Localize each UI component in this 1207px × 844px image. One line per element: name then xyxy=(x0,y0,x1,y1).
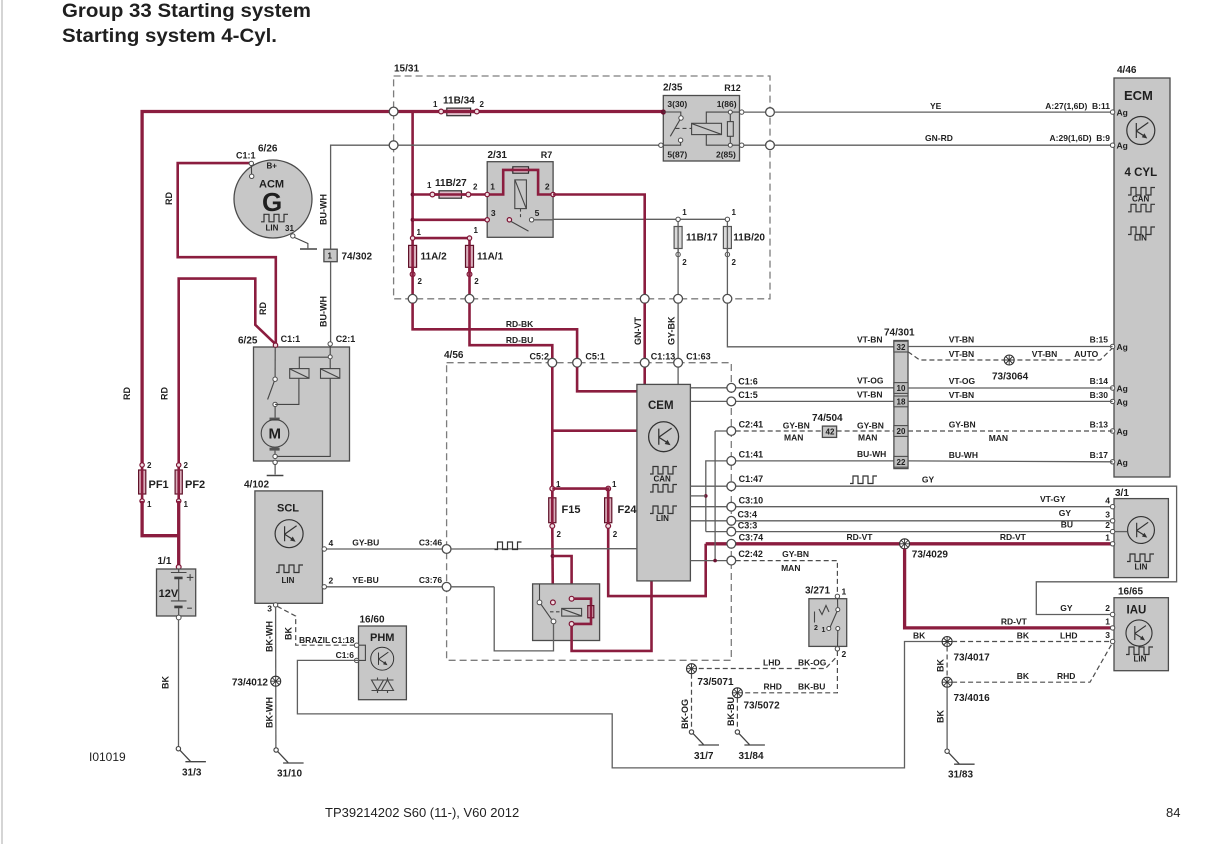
svg-text:Ag: Ag xyxy=(1117,141,1128,151)
svg-text:VT-BN: VT-BN xyxy=(949,349,975,359)
svg-text:Ag: Ag xyxy=(1117,108,1128,118)
svg-text:11B/17: 11B/17 xyxy=(686,233,718,244)
svg-text:C3:46: C3:46 xyxy=(419,538,442,548)
svg-text:3: 3 xyxy=(491,208,496,218)
wire: CEM bottom red to relay coil return xyxy=(572,581,652,651)
relay (starter control) in 4/56 xyxy=(533,584,600,641)
svg-text:2: 2 xyxy=(329,576,334,586)
svg-text:1: 1 xyxy=(490,182,495,192)
svg-text:2: 2 xyxy=(545,182,550,192)
svg-text:3/1: 3/1 xyxy=(1115,488,1129,499)
svg-text:2: 2 xyxy=(480,100,485,109)
svg-text:C1:5: C1:5 xyxy=(738,390,758,400)
svg-text:1: 1 xyxy=(822,627,826,634)
wire: BK RHD dashed diagonal to IAU pin 3 xyxy=(952,645,1111,683)
svg-text:GY-BN: GY-BN xyxy=(783,421,810,431)
wire: grey 5(87) row from node to relay 2/35 xyxy=(394,144,664,146)
svg-text:BK-WH: BK-WH xyxy=(265,621,275,652)
wire: GY-BN MAN dashed row 20 to ECM B:13 xyxy=(908,430,1113,432)
svg-text:F15: F15 xyxy=(562,504,581,516)
node C3:10 xyxy=(727,502,736,511)
svg-text:LHD: LHD xyxy=(763,657,780,667)
wire: C1:47 GY row to IAU pin 2 xyxy=(690,486,1176,614)
svg-text:2/35: 2/35 xyxy=(663,83,683,94)
svg-text:15/31: 15/31 xyxy=(394,64,419,75)
svg-text:SCL: SCL xyxy=(277,503,299,515)
wire: battery to ground 31/3 (BK) xyxy=(178,620,180,747)
generator 6/26 ACM xyxy=(234,144,312,239)
svg-text:RHD: RHD xyxy=(1057,671,1075,681)
wire: GY-BU from SCL pin4 to C3:46 and CEM xyxy=(327,548,447,550)
svg-text:C1:41: C1:41 xyxy=(739,450,764,460)
svg-text:Ag: Ag xyxy=(1117,342,1128,352)
svg-text:GN-VT: GN-VT xyxy=(633,317,643,346)
svg-text:RD-VT: RD-VT xyxy=(1001,617,1028,627)
ECM pin B:11 xyxy=(1110,110,1114,114)
node C3:4 xyxy=(727,516,736,525)
node 15/31 left edge lower (BU-WH row) xyxy=(389,141,398,150)
svg-text:B:13: B:13 xyxy=(1090,420,1109,430)
fuse 11B/34 xyxy=(433,95,485,115)
PHM pin C1:6 xyxy=(354,658,358,662)
harness box 4/56 (dashed) xyxy=(444,350,731,660)
wire: GY-BK grey drop to CEM xyxy=(677,303,679,384)
svg-text:G: G xyxy=(262,187,282,217)
svg-text:2: 2 xyxy=(557,530,562,539)
svg-text:Ag: Ag xyxy=(1117,427,1128,437)
svg-text:BK-BU: BK-BU xyxy=(726,697,736,726)
node C1:13 xyxy=(640,358,649,367)
junction dot feed/pin3 row xyxy=(411,218,415,222)
svg-text:31/84: 31/84 xyxy=(739,751,764,762)
svg-text:VT-BN: VT-BN xyxy=(949,390,975,400)
svg-text:2: 2 xyxy=(842,649,847,659)
ECM pin B:30 xyxy=(1110,399,1114,403)
node C1:47 xyxy=(727,482,736,491)
relay 2/31 R7 xyxy=(485,150,555,237)
wire: RD-BK 11A/2 to C5:1 xyxy=(413,303,577,358)
svg-text:BU-WH: BU-WH xyxy=(949,450,978,460)
svg-text:3: 3 xyxy=(1105,630,1110,640)
node 15/31 right edge lower xyxy=(766,141,775,150)
node C2:42 xyxy=(727,556,736,565)
svg-text:B:14: B:14 xyxy=(1090,376,1109,386)
svg-text:C1:13: C1:13 xyxy=(651,352,676,362)
svg-text:31/3: 31/3 xyxy=(182,768,202,779)
node C5:2 xyxy=(548,358,557,367)
fuse F24 xyxy=(605,480,638,539)
node C1:6 xyxy=(727,383,736,392)
ground 31/83 xyxy=(945,749,975,781)
svg-text:I01019: I01019 xyxy=(89,750,126,764)
wire: dashed GY-BN MAN from C2:42 to 3/271 xyxy=(736,561,838,594)
svg-text:4: 4 xyxy=(1105,495,1110,505)
svg-text:73/4017: 73/4017 xyxy=(954,653,991,664)
svg-text:11B/20: 11B/20 xyxy=(733,233,765,244)
SCL pin 2 xyxy=(322,585,326,589)
svg-text:VT-BN: VT-BN xyxy=(857,335,883,345)
svg-text:11B/27: 11B/27 xyxy=(435,178,467,189)
svg-text:RD-VT: RD-VT xyxy=(847,532,874,542)
svg-text:GY-BN: GY-BN xyxy=(782,549,809,559)
svg-text:Group 33 Starting system: Group 33 Starting system xyxy=(62,1,311,22)
wire: GN-RD to ECM B:9 xyxy=(774,144,1112,146)
starter motor 6/25 xyxy=(238,334,355,461)
svg-text:4/46: 4/46 xyxy=(1117,65,1137,76)
splice 73/4012 xyxy=(271,676,281,686)
svg-text:VT-GY: VT-GY xyxy=(1040,494,1066,504)
svg-text:31/7: 31/7 xyxy=(694,751,714,762)
wire: F15 down to relay switch contact xyxy=(551,528,554,602)
wire: BK dashed between 73/4017 and 73/4016 xyxy=(946,647,948,678)
svg-text:2(85): 2(85) xyxy=(716,150,736,160)
svg-text:2: 2 xyxy=(418,277,423,286)
svg-text:VT-OG: VT-OG xyxy=(857,376,884,386)
svg-text:C2:41: C2:41 xyxy=(739,420,764,430)
svg-text:BK-BU: BK-BU xyxy=(798,682,825,692)
splice 73/4029 xyxy=(900,539,910,549)
svg-text:MAN: MAN xyxy=(858,433,877,443)
splice 73/3064 xyxy=(1004,355,1014,365)
svg-text:73/5072: 73/5072 xyxy=(744,701,781,712)
wire: BU-WH generator LIN harness (to node and 6/25 C2:1) xyxy=(331,145,394,343)
module 16/65 IAU xyxy=(1114,587,1168,671)
svg-text:RD: RD xyxy=(160,387,170,400)
svg-text:73/3064: 73/3064 xyxy=(992,372,1029,383)
node C3:46 xyxy=(442,545,451,554)
module 3/1 xyxy=(1114,488,1168,578)
fuse 11A/1 xyxy=(466,226,504,299)
svg-text:VT-BN: VT-BN xyxy=(949,335,975,345)
svg-text:BK: BK xyxy=(161,676,171,689)
wire: RD-BU 11A/1 to C5:2 xyxy=(470,303,553,358)
svg-text:C3:76: C3:76 xyxy=(419,575,442,585)
wire: F15 branch to relay coil xyxy=(553,556,572,597)
svg-text:CAN: CAN xyxy=(654,475,672,484)
svg-text:C3:10: C3:10 xyxy=(739,495,764,505)
node 15/31 bottom edge x=678.1 (GY-BK) xyxy=(674,294,683,303)
ground 31/84 xyxy=(735,730,765,762)
svg-text:RD: RD xyxy=(258,302,268,315)
svg-text:B+: B+ xyxy=(267,162,278,171)
svg-text:31/10: 31/10 xyxy=(277,769,302,780)
svg-text:4: 4 xyxy=(329,538,334,548)
svg-text:16/60: 16/60 xyxy=(360,615,385,626)
svg-text:B:30: B:30 xyxy=(1090,390,1109,400)
wire: C3:3 row to 3/1 pin 2 xyxy=(706,531,1113,533)
svg-text:C2:42: C2:42 xyxy=(738,549,763,559)
ECM pin B:9 xyxy=(1110,143,1114,147)
wire: VT-BN AUTO dashed alternate to B:15 xyxy=(908,349,1112,361)
svg-text:BK: BK xyxy=(913,631,926,641)
wire: YE row relay to 15/31 edge xyxy=(744,111,770,113)
svg-text:2: 2 xyxy=(1105,520,1110,530)
SCL pin 4 xyxy=(322,547,326,551)
svg-text:F24: F24 xyxy=(618,504,638,516)
ground 31/7 xyxy=(689,730,719,762)
svg-text:B:15: B:15 xyxy=(1090,335,1109,345)
junction dot F15 branch xyxy=(551,554,555,558)
svg-text:R7: R7 xyxy=(541,150,553,160)
ECM 4/46 xyxy=(1114,65,1170,477)
wire: battery B+ feed PF1 riser (RD) xyxy=(142,112,663,466)
svg-text:BU: BU xyxy=(1061,519,1073,529)
svg-text:RD-BK: RD-BK xyxy=(506,319,534,329)
svg-text:2: 2 xyxy=(682,258,687,267)
svg-text:BK: BK xyxy=(936,710,946,723)
svg-text:11A/1: 11A/1 xyxy=(477,252,504,263)
wire: link F15/F24 tops xyxy=(552,489,608,498)
svg-text:RD-VT: RD-VT xyxy=(1000,532,1027,542)
svg-text:MAN: MAN xyxy=(781,563,800,573)
svg-text:C3:4: C3:4 xyxy=(738,510,758,520)
splice 73/4017 xyxy=(942,637,952,647)
svg-text:Ag: Ag xyxy=(1117,384,1128,394)
module 16/60 PHM xyxy=(359,615,407,700)
wire: C3:4 row to 3/1 pin 3 xyxy=(690,520,1112,522)
svg-text:BK-OG: BK-OG xyxy=(680,699,690,729)
svg-text:1: 1 xyxy=(842,587,847,597)
svg-text:R12: R12 xyxy=(724,83,741,93)
wire: 2/31 pin5 grey row to 11B/17 and 11B/20 xyxy=(553,218,727,220)
svg-text:2: 2 xyxy=(732,258,737,267)
svg-text:31/83: 31/83 xyxy=(948,770,973,781)
wire: BK from PHM C1:6 to splice 73/4017 xyxy=(297,642,942,768)
wire: VT-BN row 18 to ECM B:30 xyxy=(908,400,1113,402)
connector 74/302 pin 1 xyxy=(324,249,373,262)
switch 3/271 (gear selector) xyxy=(805,586,847,660)
wire: link 11A/2 to 11A/1 tops xyxy=(413,238,470,245)
svg-text:11A/2: 11A/2 xyxy=(421,252,448,263)
svg-text:C1:1: C1:1 xyxy=(281,334,301,344)
PHM pin C1:18 xyxy=(354,643,358,647)
wire: YE-BU from SCL pin2 to C3:76 and relay xyxy=(327,586,447,588)
wire: dashed GY-BN MAN to 74/504 and 74/301 pin 20 xyxy=(736,430,823,432)
svg-text:73/4029: 73/4029 xyxy=(912,550,949,561)
svg-text:6/25: 6/25 xyxy=(238,336,258,347)
svg-text:73/4016: 73/4016 xyxy=(954,693,991,704)
svg-text:B:17: B:17 xyxy=(1090,450,1109,460)
IAU pin 2 xyxy=(1110,612,1114,616)
svg-text:20: 20 xyxy=(897,427,906,436)
svg-text:C1:1: C1:1 xyxy=(236,151,256,161)
3/1 pin 1 xyxy=(1110,542,1114,546)
fuse F15 xyxy=(549,480,581,539)
svg-text:LIN: LIN xyxy=(1135,563,1148,572)
junction dot feed/11A link xyxy=(411,236,415,240)
svg-text:5(87): 5(87) xyxy=(667,150,687,160)
wire: 2/31 pin2 output to GN-VT drop xyxy=(553,195,645,299)
wire: VT-BN from 11B/20 to 74/301 pin32 xyxy=(727,303,894,347)
svg-text:C1:63: C1:63 xyxy=(686,352,711,362)
node 15/31 bottom edge x=469.5 xyxy=(465,294,474,303)
svg-text:LIN: LIN xyxy=(1134,655,1147,664)
svg-text:18: 18 xyxy=(897,398,906,407)
fuse PF2 xyxy=(175,461,205,509)
svg-text:1: 1 xyxy=(147,500,152,509)
svg-text:TP39214202 S60 (11-), V60 2012: TP39214202 S60 (11-), V60 2012 xyxy=(325,805,519,820)
svg-text:31: 31 xyxy=(285,224,294,233)
wire: F24 down to RD-VT run xyxy=(608,528,706,596)
svg-text:22: 22 xyxy=(897,458,906,467)
node C3:74 (RD-VT row) xyxy=(727,539,736,548)
svg-text:3/271: 3/271 xyxy=(805,586,830,597)
wire: ACM branch loop (from 6/25 C1:1 up to ACM B+) xyxy=(178,163,276,344)
battery 1/1 12V xyxy=(157,556,196,620)
wire: C1:41 row to 74/301 pin 22 xyxy=(706,461,732,532)
fuse 11A/2 xyxy=(409,228,447,299)
IAU pin 1 xyxy=(1110,626,1114,630)
ground 31/3 xyxy=(176,747,206,779)
ECM pin B:13 xyxy=(1110,429,1114,433)
svg-text:BRAZIL: BRAZIL xyxy=(299,635,330,645)
svg-text:RD: RD xyxy=(164,192,174,205)
svg-text:GY: GY xyxy=(922,475,935,485)
svg-text:CEM: CEM xyxy=(648,400,674,412)
svg-text:GY-BK: GY-BK xyxy=(667,316,677,345)
svg-text:2: 2 xyxy=(474,277,479,286)
starter ground pin and chassis bar xyxy=(273,460,277,464)
connector 74/504 pin 42 xyxy=(812,413,843,437)
svg-text:BU-WH: BU-WH xyxy=(319,194,329,225)
svg-text:11B/34: 11B/34 xyxy=(443,95,475,106)
node C1:41 xyxy=(727,457,736,466)
svg-text:YE: YE xyxy=(930,101,942,111)
svg-text:6/26: 6/26 xyxy=(258,144,278,155)
splice 73/5072 xyxy=(732,688,742,698)
svg-text:GY-BN: GY-BN xyxy=(949,420,976,430)
wire: BK dashed from SCL pin3 to PHM C1:18 xyxy=(277,606,354,645)
svg-text:C2:1: C2:1 xyxy=(336,334,356,344)
harness box 15/31 (dashed) xyxy=(394,64,770,299)
wire: feed drop to 11A fuses and relay rows xyxy=(411,112,414,246)
fuse 11B/20 xyxy=(723,208,765,299)
svg-text:4/56: 4/56 xyxy=(444,350,464,361)
svg-text:BK: BK xyxy=(1017,671,1030,681)
svg-text:Starting system 4-Cyl.: Starting system 4-Cyl. xyxy=(62,26,277,47)
wire: GN-VT red drop to CEM xyxy=(643,303,646,384)
svg-text:2: 2 xyxy=(184,461,189,470)
wire: relay moving contact to YE-BU (via bottom) xyxy=(494,587,553,651)
svg-text:32: 32 xyxy=(897,343,906,352)
wire: 2/31 pin3 feed row xyxy=(413,219,510,222)
node C3:76 xyxy=(442,582,451,591)
node C1:5 xyxy=(727,397,736,406)
svg-text:4 CYL: 4 CYL xyxy=(1125,167,1158,179)
module 4/102 SCL xyxy=(244,480,323,604)
svg-text:1: 1 xyxy=(682,208,687,217)
ECM pin B:17 xyxy=(1110,460,1114,464)
svg-text:1: 1 xyxy=(184,500,189,509)
svg-text:YE-BU: YE-BU xyxy=(352,575,378,585)
svg-text:BK-OG: BK-OG xyxy=(798,657,827,667)
node 15/31 right edge upper xyxy=(766,108,775,117)
wire: C2:41 link down to C2:42 row xyxy=(715,430,731,432)
wire: BK-OG dashed down to ground 31/7 xyxy=(691,674,693,730)
svg-text:PF2: PF2 xyxy=(185,479,205,491)
svg-text:Ag: Ag xyxy=(1117,457,1128,467)
svg-text:73/4012: 73/4012 xyxy=(232,678,269,689)
node 15/31 bottom edge x=727.4 (VT-BN) xyxy=(723,294,732,303)
svg-text:GY: GY xyxy=(1059,508,1072,518)
svg-text:LIN: LIN xyxy=(656,514,669,523)
svg-text:42: 42 xyxy=(826,428,835,437)
wire: BK-OG LHD dashed from 3/271 pin2 to 73/5071 xyxy=(692,651,838,669)
svg-text:1: 1 xyxy=(328,252,333,261)
wire: C5:2 red down to F15, branch into CEM xyxy=(551,367,554,486)
svg-text:PF1: PF1 xyxy=(149,479,169,491)
wire: BU-WH row 22 to ECM B:17 xyxy=(908,460,1113,463)
svg-text:LIN: LIN xyxy=(1134,234,1147,243)
svg-text:GY-BN: GY-BN xyxy=(857,421,884,431)
svg-text:2: 2 xyxy=(473,183,478,192)
svg-text:1: 1 xyxy=(417,228,422,237)
relay 2/35 R12 xyxy=(659,83,744,162)
svg-text:RD: RD xyxy=(122,387,132,400)
wire: VT-OG row 10 to ECM B:14 xyxy=(908,387,1113,389)
svg-text:LIN: LIN xyxy=(282,576,295,585)
3/1 pin 4 xyxy=(1110,505,1114,509)
svg-text:Ag: Ag xyxy=(1117,397,1128,407)
wire: YE to ECM B:11 xyxy=(774,111,1112,113)
svg-text:C1:47: C1:47 xyxy=(739,474,764,484)
wire: GN-RD row relay to 15/31 edge xyxy=(744,144,770,146)
svg-text:C5:1: C5:1 xyxy=(585,352,605,362)
wire: PF1/PF2 bottoms to battery xyxy=(142,501,179,536)
wire: C5:1 red into CEM xyxy=(577,367,637,391)
svg-text:GY: GY xyxy=(1060,603,1073,613)
wire: BK-BU dashed down to ground 31/84 xyxy=(736,698,738,730)
svg-text:MAN: MAN xyxy=(989,433,1008,443)
svg-text:BK: BK xyxy=(284,627,294,640)
splice 73/4016 xyxy=(942,677,952,687)
wire: PF2 to starter 6/25 C1:1 xyxy=(179,279,276,465)
svg-text:84: 84 xyxy=(1166,805,1180,820)
svg-text:BK: BK xyxy=(1017,631,1030,641)
wire: RD-VT branch down to IAU pin 1 xyxy=(905,549,1113,628)
svg-text:GN-RD: GN-RD xyxy=(925,133,953,143)
svg-text:A:29(1,6D) B:9: A:29(1,6D) B:9 xyxy=(1050,133,1111,143)
svg-text:4/102: 4/102 xyxy=(244,480,269,491)
wire: C1:6 row CEM to 74/301 pin 10 xyxy=(690,387,894,389)
svg-text:73/5071: 73/5071 xyxy=(697,677,734,688)
svg-text:RHD: RHD xyxy=(764,682,782,692)
svg-text:C1:6: C1:6 xyxy=(336,650,355,660)
fuse PF1 xyxy=(139,461,169,509)
svg-text:2: 2 xyxy=(814,625,818,632)
ground 31/10 xyxy=(274,748,304,780)
svg-text:16/65: 16/65 xyxy=(1118,587,1143,598)
svg-text:ECM: ECM xyxy=(1124,88,1153,103)
SCL pin 3 xyxy=(273,603,277,607)
svg-text:BU-WH: BU-WH xyxy=(857,449,886,459)
svg-text:VT-BN: VT-BN xyxy=(1032,349,1058,359)
wire: VT-BN row 32 to ECM B:15 xyxy=(908,346,1113,348)
svg-text:3: 3 xyxy=(267,604,272,614)
wire: C2:42 stub from CEM xyxy=(690,560,731,562)
svg-text:CAN: CAN xyxy=(1132,195,1150,204)
3/1 pin 3 xyxy=(1110,519,1114,523)
svg-text:2/31: 2/31 xyxy=(488,150,508,161)
svg-text:C5:2: C5:2 xyxy=(529,352,549,362)
ECM pin B:14 xyxy=(1110,386,1114,390)
wire: BK from 73/4016 to ground 31/83 xyxy=(946,687,948,749)
svg-text:1: 1 xyxy=(1105,532,1110,542)
svg-text:LHD: LHD xyxy=(1060,631,1077,641)
svg-text:A:27(1,6D) B:11: A:27(1,6D) B:11 xyxy=(1045,101,1110,111)
svg-text:C1:18: C1:18 xyxy=(331,635,354,645)
node 15/31 bottom edge x=412.6 xyxy=(408,294,417,303)
